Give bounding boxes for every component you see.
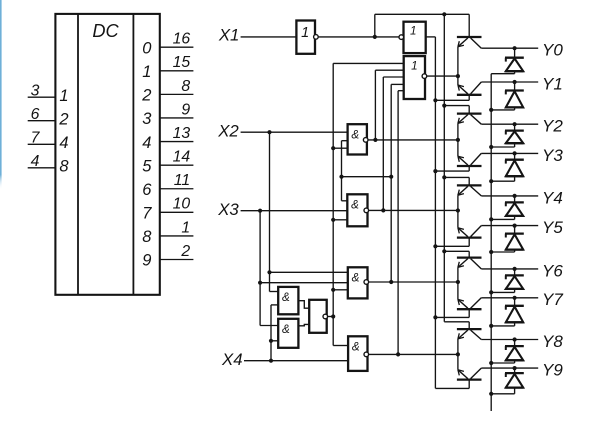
decoder label DC bbox=[92, 21, 119, 41]
node net N to G3 junction bbox=[331, 288, 335, 292]
wire I3 input5 from V4 bbox=[398, 90, 404, 92]
decoder output digit 8 bbox=[142, 228, 152, 246]
gate GC output bubble bbox=[323, 314, 328, 319]
transistor Q6 base lead bbox=[435, 238, 469, 247]
diode VD9 bbox=[491, 340, 524, 364]
svg-text:6: 6 bbox=[31, 106, 40, 123]
output line Y8 bbox=[481, 339, 538, 341]
gate GA box bbox=[278, 287, 298, 314]
transistor Q3 collector bbox=[471, 115, 482, 125]
decoder output pin number 2 bbox=[180, 243, 190, 260]
transistor Q4 base bar bbox=[457, 165, 482, 167]
svg-text:1: 1 bbox=[301, 25, 309, 41]
inverter I1 output bubble bbox=[314, 35, 319, 40]
node net N from GC junction bbox=[331, 314, 335, 318]
input label X1 bbox=[218, 26, 240, 45]
svg-text:1: 1 bbox=[59, 87, 68, 105]
decoder output line 7 pin 10 bbox=[160, 211, 194, 213]
node pair 2 common emitter junction bbox=[456, 138, 460, 142]
gate G4 output bubble bbox=[364, 352, 369, 357]
decoder output line 3 pin 9 bbox=[160, 117, 194, 119]
wire I3 input2 from V1 bbox=[375, 69, 403, 71]
svg-text:9: 9 bbox=[181, 101, 190, 118]
node Q7 base junction bbox=[442, 249, 446, 253]
output line Y0 bbox=[481, 47, 538, 49]
decoder input weight label 1 bbox=[59, 87, 68, 105]
transistor Q1 emitter bbox=[458, 38, 468, 76]
decoder output pin number 8 bbox=[181, 78, 190, 95]
output line Y3 bbox=[481, 152, 538, 154]
svg-text:1: 1 bbox=[142, 63, 151, 81]
wire I1 output to I2 input bbox=[318, 36, 399, 38]
gate G2 label &amp; bbox=[351, 199, 359, 212]
gate G2 output bubble bbox=[364, 208, 369, 213]
node rail VD6 junction bbox=[489, 250, 493, 254]
svg-text:Y5: Y5 bbox=[542, 218, 563, 237]
output label Y7 bbox=[542, 290, 563, 309]
wire X3 branch to gate GB bbox=[260, 325, 278, 327]
wire G3 output bbox=[369, 281, 458, 283]
transistor Q2 emitter bbox=[458, 76, 468, 94]
wire V2 vertical G2 out to I3 bbox=[382, 77, 384, 210]
output label Y0 bbox=[542, 41, 563, 60]
output label Y9 bbox=[542, 361, 563, 380]
svg-text:DC: DC bbox=[92, 21, 119, 41]
svg-text:Y0: Y0 bbox=[542, 41, 563, 60]
wire X4 branch vertical bbox=[270, 305, 272, 361]
decoder output pin number 11 bbox=[174, 172, 190, 189]
gate G4 box bbox=[348, 336, 367, 371]
decoder output line 1 pin 15 bbox=[160, 70, 194, 72]
transistor Q9 base lead bbox=[444, 322, 469, 329]
transistor Q10 collector bbox=[471, 368, 482, 379]
decoder input pin line 7 bbox=[28, 143, 56, 145]
node Y6 diode junction bbox=[513, 267, 517, 271]
diode VD10 bbox=[491, 368, 524, 394]
decoder output line 6 pin 11 bbox=[160, 188, 194, 190]
transistor Q7 base bar bbox=[457, 256, 482, 258]
decoder output line 0 pin 16 bbox=[160, 46, 194, 48]
inverter I2 input bubble bbox=[399, 35, 404, 40]
decoder input pin number 3 bbox=[31, 82, 40, 99]
node Y1 diode junction bbox=[513, 80, 517, 84]
gate G1 label &amp; bbox=[351, 128, 359, 141]
decoder input pin number 4 bbox=[31, 153, 40, 170]
svg-text:&: & bbox=[351, 128, 359, 141]
wire net M to gate G2 bbox=[342, 200, 348, 202]
decoder input weight label 2 bbox=[58, 111, 68, 129]
svg-text:Y6: Y6 bbox=[542, 261, 563, 280]
transistor Q3 base lead bbox=[444, 106, 469, 114]
svg-text:Y4: Y4 bbox=[542, 188, 563, 207]
diode VD1 bbox=[491, 48, 524, 73]
output line Y9 bbox=[481, 367, 538, 369]
svg-text:8: 8 bbox=[181, 78, 190, 95]
transistor Q8 collector bbox=[471, 298, 482, 308]
wire VI1 vertical even bases bbox=[443, 14, 445, 322]
decoder DC inner partition right bbox=[132, 14, 134, 295]
svg-text:&: & bbox=[352, 272, 360, 285]
wire net N to gate G1 bbox=[333, 147, 347, 149]
transistor Q7 base lead bbox=[444, 251, 469, 257]
wire I3 output to pair1 emitters bbox=[427, 75, 458, 77]
decoder output pin number 10 bbox=[173, 196, 191, 213]
svg-text:X1: X1 bbox=[218, 26, 240, 45]
decoder output digit 5 bbox=[142, 157, 152, 175]
node Q2 base junction bbox=[433, 98, 437, 102]
output label Y2 bbox=[542, 117, 563, 136]
node X2 to G3 junction bbox=[267, 270, 271, 274]
decoder output line 9 pin 2 bbox=[160, 259, 194, 261]
svg-text:4: 4 bbox=[142, 134, 151, 152]
node Y8 diode junction bbox=[513, 337, 517, 341]
output label Y1 bbox=[542, 74, 563, 93]
svg-text:7: 7 bbox=[31, 130, 41, 147]
node Q4 base junction bbox=[433, 169, 437, 173]
svg-text:2: 2 bbox=[180, 243, 190, 260]
wire X4 branch to gate GB bbox=[271, 340, 278, 342]
svg-text:Y8: Y8 bbox=[542, 332, 563, 351]
gate I3 label 1 bbox=[411, 60, 418, 73]
output line Y2 bbox=[481, 123, 538, 125]
wire X4 to gate G4 bbox=[244, 360, 348, 362]
node rail VD7 junction bbox=[489, 290, 493, 294]
wire crosslink VM to V3 bbox=[342, 176, 392, 178]
node V2 G2 output junction bbox=[381, 208, 385, 212]
node V1 G1 output junction bbox=[373, 138, 377, 142]
node Y2 diode junction bbox=[513, 122, 517, 126]
transistor Q5 collector bbox=[471, 186, 482, 196]
node Y0 diode junction bbox=[513, 46, 517, 50]
wire net N to gate G4 bbox=[333, 345, 348, 347]
wire X2 branch to gate GA bbox=[270, 291, 279, 293]
wire I3 input1 from net N bbox=[333, 62, 404, 64]
decoder DC outline bbox=[55, 14, 159, 295]
diode VD3 bbox=[491, 124, 524, 147]
decoder output line 2 pin 8 bbox=[160, 93, 194, 95]
diode VD8 bbox=[491, 298, 524, 326]
gate GB box bbox=[278, 319, 298, 348]
node Q6 base junction bbox=[433, 244, 437, 248]
svg-text:10: 10 bbox=[173, 196, 191, 213]
transistor Q9 emitter bbox=[458, 330, 468, 354]
transistor Q9 collector bbox=[471, 330, 482, 339]
decoder output pin number 15 bbox=[173, 54, 191, 71]
svg-text:1: 1 bbox=[411, 60, 418, 73]
svg-text:2: 2 bbox=[141, 87, 151, 105]
diode VD4 bbox=[491, 153, 524, 181]
transistor Q7 emitter bbox=[458, 259, 468, 282]
wire net M to gate G1 bbox=[342, 140, 348, 142]
node rail VD5 junction bbox=[489, 217, 493, 221]
wire net M vertical bbox=[341, 141, 343, 201]
transistor Q6 base bar bbox=[457, 236, 482, 238]
output label Y5 bbox=[542, 218, 563, 237]
wire X1 inverted up bbox=[374, 14, 376, 37]
decoder input pin line 4 bbox=[28, 167, 56, 169]
diode anode rail bbox=[490, 74, 492, 411]
node X2 branch junction bbox=[267, 130, 271, 134]
svg-text:4: 4 bbox=[59, 134, 68, 152]
transistor Q2 base bar bbox=[457, 94, 482, 96]
transistor Q10 base bar bbox=[457, 378, 482, 380]
node X4 branch junction bbox=[269, 359, 273, 363]
gate I3 box bbox=[404, 56, 425, 99]
decoder input pin line 3 bbox=[28, 96, 56, 98]
inverter I1 label 1 bbox=[301, 25, 309, 41]
svg-text:8: 8 bbox=[142, 228, 152, 246]
transistor Q5 emitter bbox=[458, 186, 468, 210]
decoder output digit 1 bbox=[142, 63, 151, 81]
output label Y3 bbox=[542, 146, 563, 165]
transistor Q7 collector bbox=[471, 259, 482, 269]
svg-text:Y3: Y3 bbox=[542, 146, 563, 165]
node pair 1 common emitter junction bbox=[456, 74, 460, 78]
output label Y8 bbox=[542, 332, 563, 351]
node V2 crosslink junction bbox=[389, 175, 393, 179]
wire G4 output bbox=[369, 353, 458, 355]
wire X2 to gate G1 bbox=[241, 131, 348, 133]
page edge blue bar bbox=[0, 0, 2, 190]
wire GA output jog bbox=[298, 301, 309, 309]
transistor Q6 emitter bbox=[458, 211, 468, 237]
transistor Q2 base lead bbox=[435, 95, 469, 101]
transistor Q10 emitter bbox=[458, 354, 468, 378]
node rail VD8 junction bbox=[489, 324, 493, 328]
input label X4 bbox=[221, 350, 243, 369]
diode VD7 bbox=[491, 269, 524, 293]
node Q8 base junction bbox=[433, 315, 437, 319]
node pair 5 common emitter junction bbox=[456, 352, 460, 356]
svg-text:X3: X3 bbox=[217, 200, 239, 219]
gate G1 output bubble bbox=[363, 138, 368, 143]
decoder input pin number 6 bbox=[31, 106, 40, 123]
decoder input pin number 7 bbox=[31, 130, 41, 147]
node X3 to G3 junction bbox=[258, 281, 262, 285]
decoder output pin number 9 bbox=[181, 101, 190, 118]
svg-text:7: 7 bbox=[142, 205, 152, 223]
diode VD5 bbox=[491, 196, 524, 220]
svg-text:14: 14 bbox=[173, 149, 191, 166]
node Y5 diode junction bbox=[513, 224, 517, 228]
node VM crosslink junction bbox=[339, 175, 343, 179]
svg-text:1: 1 bbox=[410, 25, 417, 38]
decoder input weight label 8 bbox=[59, 158, 69, 176]
node X4 to GB junction bbox=[269, 339, 273, 343]
svg-text:16: 16 bbox=[173, 31, 191, 48]
svg-text:9: 9 bbox=[142, 252, 151, 270]
node rail VD3 junction bbox=[489, 145, 493, 149]
node Q3 base junction bbox=[442, 104, 446, 108]
transistor Q1 base lead bbox=[468, 14, 470, 37]
wire X2 branch vertical bbox=[269, 132, 271, 291]
wire VI2 vertical odd bases bbox=[434, 37, 436, 389]
wire V3 vertical G3 out to I3 bbox=[390, 84, 392, 282]
gate GB label &amp; bbox=[282, 323, 290, 336]
node Y9 diode junction bbox=[513, 366, 517, 370]
node pair 4 common emitter junction bbox=[456, 280, 460, 284]
decoder output line 4 pin 13 bbox=[160, 141, 194, 143]
wire I3 input3 from V2 bbox=[383, 76, 403, 78]
node Q5 base junction bbox=[442, 175, 446, 179]
wire I3 input4 from V3 bbox=[391, 83, 404, 85]
decoder output digit 2 bbox=[141, 87, 151, 105]
output line Y5 bbox=[481, 225, 538, 227]
svg-text:X2: X2 bbox=[217, 121, 239, 140]
svg-text:1: 1 bbox=[181, 219, 190, 236]
svg-text:&: & bbox=[282, 323, 290, 336]
node V4 G4 output junction bbox=[396, 352, 400, 356]
svg-text:5: 5 bbox=[142, 157, 152, 175]
svg-text:&: & bbox=[352, 341, 360, 354]
decoder output digit 9 bbox=[142, 252, 151, 270]
transistor Q8 emitter bbox=[458, 282, 468, 308]
node rail VD10 junction bbox=[489, 392, 493, 396]
svg-text:4: 4 bbox=[31, 153, 40, 170]
output line Y7 bbox=[481, 297, 538, 299]
decoder output digit 4 bbox=[142, 134, 151, 152]
transistor Q10 base lead bbox=[435, 380, 469, 389]
node Y7 diode junction bbox=[513, 296, 517, 300]
transistor Q3 base bar bbox=[457, 112, 482, 114]
decoder output pin number 1 bbox=[181, 219, 190, 236]
transistor Q6 collector bbox=[471, 226, 482, 237]
decoder output pin number 14 bbox=[173, 149, 191, 166]
node rail VD4 junction bbox=[489, 179, 493, 183]
wire X1 to inverter I1 bbox=[241, 36, 297, 38]
wire net N to gate G3 bbox=[333, 289, 348, 291]
svg-text:8: 8 bbox=[59, 158, 69, 176]
transistor Q8 base lead bbox=[435, 309, 469, 317]
wire G2 output bbox=[369, 209, 458, 211]
wire net N to gate G2 bbox=[333, 219, 347, 221]
decoder input weight label 4 bbox=[59, 134, 68, 152]
svg-text:3: 3 bbox=[31, 82, 40, 99]
gate G3 box bbox=[348, 267, 368, 298]
gate G2 box bbox=[347, 194, 367, 226]
node Y3 diode junction bbox=[513, 151, 517, 155]
output label Y6 bbox=[542, 261, 563, 280]
svg-text:&: & bbox=[351, 199, 359, 212]
transistor Q1 base bar bbox=[457, 36, 482, 38]
gate I3 output bubble bbox=[422, 74, 427, 79]
wire G1 output bbox=[368, 139, 458, 141]
decoder output digit 3 bbox=[142, 110, 152, 128]
diode VD6 bbox=[491, 226, 524, 252]
node X1 inverted branch junction bbox=[373, 35, 377, 39]
decoder output digit 0 bbox=[142, 39, 152, 57]
transistor Q2 collector bbox=[471, 82, 482, 94]
svg-text:2: 2 bbox=[58, 111, 68, 129]
gate GC box bbox=[309, 300, 327, 333]
decoder output pin number 16 bbox=[173, 31, 191, 48]
wire X3 to gate G2 bbox=[241, 210, 348, 212]
wire X3 branch to gate G3 bbox=[260, 282, 348, 284]
decoder output digit 6 bbox=[142, 181, 152, 199]
node net N to G2 junction bbox=[331, 218, 335, 222]
gate G3 label &amp; bbox=[352, 272, 360, 285]
decoder output line 5 pin 14 bbox=[160, 164, 194, 166]
output line Y1 bbox=[481, 81, 538, 83]
output line Y6 bbox=[481, 268, 538, 270]
inverter I2 box bbox=[404, 22, 426, 53]
transistor Q5 base bar bbox=[457, 184, 482, 186]
decoder output line 8 pin 1 bbox=[160, 235, 194, 237]
svg-text:13: 13 bbox=[173, 125, 191, 142]
input label X2 bbox=[217, 121, 239, 140]
node Y4 diode junction bbox=[513, 194, 517, 198]
diode VD2 bbox=[491, 82, 524, 110]
wire net N vertical bbox=[332, 63, 334, 345]
inverter I2 label 1 bbox=[410, 25, 417, 38]
svg-text:Y1: Y1 bbox=[542, 74, 563, 93]
decoder DC inner partition left bbox=[77, 14, 79, 295]
wire GB output jog bbox=[298, 324, 309, 325]
wire GC output to net N bbox=[328, 316, 334, 318]
node top rail to VI1 junction bbox=[442, 12, 446, 16]
transistor Q8 base bar bbox=[457, 308, 482, 310]
transistor Q1 collector bbox=[471, 38, 482, 48]
gate GA label &amp; bbox=[282, 291, 290, 304]
svg-text:X4: X4 bbox=[221, 350, 243, 369]
node rail VD2 junction bbox=[489, 108, 493, 112]
svg-text:Y2: Y2 bbox=[542, 117, 563, 136]
wire top rail to Q1 base bbox=[375, 13, 469, 15]
transistor Q9 base bar bbox=[457, 328, 482, 330]
node V3 G3 output junction bbox=[389, 280, 393, 284]
svg-text:3: 3 bbox=[142, 110, 152, 128]
output line Y4 bbox=[481, 195, 538, 197]
transistor Q4 emitter bbox=[458, 140, 468, 165]
inverter I1 box bbox=[296, 21, 315, 54]
svg-text:11: 11 bbox=[174, 172, 190, 189]
wire X3 branch vertical bbox=[259, 211, 261, 326]
svg-text:Y9: Y9 bbox=[542, 361, 563, 380]
transistor Q5 base lead bbox=[444, 177, 469, 185]
input label X3 bbox=[217, 200, 239, 219]
svg-text:0: 0 bbox=[142, 39, 152, 57]
node pair 3 common emitter junction bbox=[456, 208, 460, 212]
gate G4 label &amp; bbox=[352, 341, 360, 354]
wire X4 branch to gate GA bbox=[271, 304, 278, 306]
transistor Q4 collector bbox=[471, 153, 482, 165]
transistor Q3 emitter bbox=[458, 115, 468, 140]
transistor Q4 base lead bbox=[435, 166, 469, 171]
wire V4 vertical G4 out to I3 bbox=[397, 91, 399, 355]
wire I2 output to VI2 bbox=[426, 36, 436, 38]
svg-text:&: & bbox=[282, 291, 290, 304]
svg-text:15: 15 bbox=[173, 54, 191, 71]
gate G1 box bbox=[348, 124, 367, 154]
svg-text:Y7: Y7 bbox=[542, 290, 563, 309]
decoder output pin number 13 bbox=[173, 125, 191, 142]
gate G3 output bubble bbox=[364, 280, 369, 285]
wire X2 branch to gate G3 bbox=[270, 271, 348, 273]
decoder input pin line 6 bbox=[28, 120, 56, 122]
decoder output digit 7 bbox=[142, 205, 152, 223]
output label Y4 bbox=[542, 188, 563, 207]
node rail VD9 junction bbox=[489, 361, 493, 365]
node X3 branch junction bbox=[258, 209, 262, 213]
node net N to G1 junction bbox=[331, 146, 335, 150]
wire V1 vertical G1 out to I3 bbox=[374, 70, 376, 140]
svg-text:6: 6 bbox=[142, 181, 152, 199]
